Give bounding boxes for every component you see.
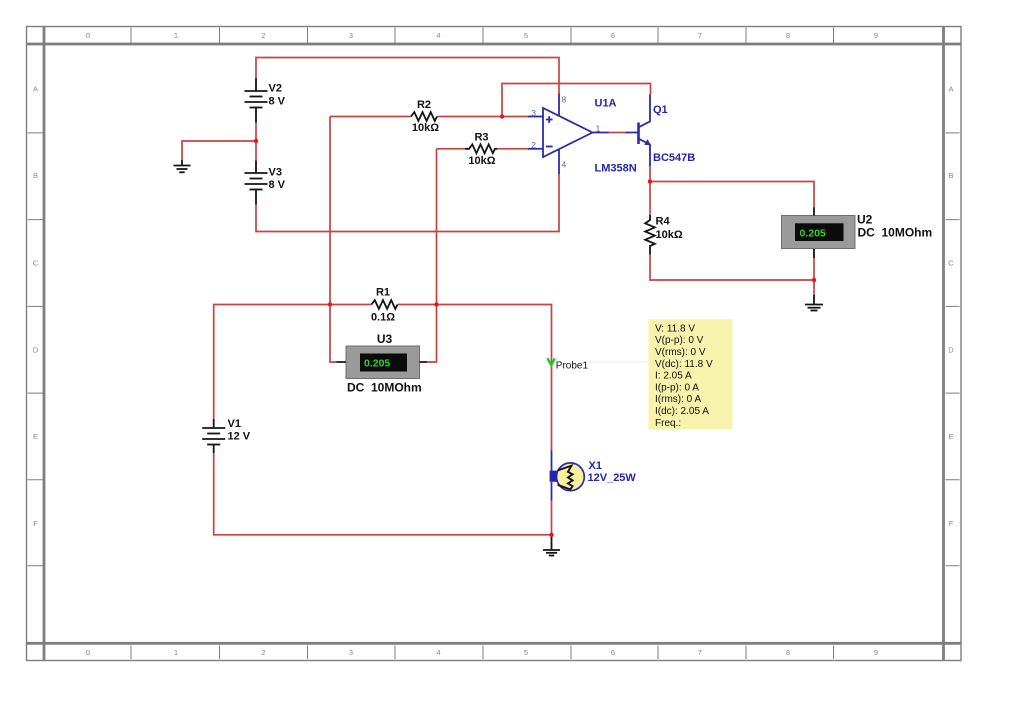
wire pin1 to Q1 base	[609, 132, 626, 134]
wire ground branch left of V2/V3 node	[182, 141, 256, 160]
svg-text:X1: X1	[589, 460, 602, 472]
resistor R2	[411, 112, 437, 121]
probe info box	[649, 319, 733, 429]
svg-text:C: C	[33, 259, 39, 268]
wire V1 bottom to lamp bottom	[214, 453, 552, 535]
op-amp minus input mark	[546, 146, 553, 148]
wire R3 right to op-amp pin2	[497, 148, 529, 150]
ground near V2/V3	[174, 160, 191, 172]
svg-text:V3: V3	[269, 167, 282, 179]
svg-text:E: E	[948, 432, 953, 441]
wire V2 bottom to V3 top	[255, 123, 257, 161]
svg-text:V2: V2	[269, 83, 282, 95]
op-amp plus input mark	[546, 116, 553, 123]
svg-text:10kΩ: 10kΩ	[656, 229, 683, 241]
wire R2 left horizontal	[330, 116, 411, 118]
battery V1	[202, 419, 225, 453]
junction node U2 ground	[812, 278, 816, 282]
svg-text:10kΩ: 10kΩ	[412, 122, 439, 134]
svg-text:4: 4	[562, 160, 567, 170]
svg-text:I: 2.05 A: I: 2.05 A	[655, 371, 692, 382]
lamp X1 filament	[558, 466, 573, 490]
op-amp pin3 stub	[528, 116, 543, 118]
svg-text:4: 4	[436, 31, 440, 40]
svg-text:7: 7	[698, 648, 702, 657]
wire R1 row right to lamp branch	[398, 305, 552, 451]
svg-text:12V_25W: 12V_25W	[588, 472, 637, 484]
lamp X1 bulb	[557, 463, 585, 491]
wire R3 left vertical to R1 right node	[436, 149, 438, 305]
svg-text:6: 6	[611, 648, 615, 657]
battery V3	[245, 161, 268, 205]
svg-text:10kΩ: 10kΩ	[468, 155, 495, 167]
svg-text:U3: U3	[377, 332, 393, 346]
battery V2	[245, 78, 268, 123]
op-amp U1 triangle	[543, 108, 593, 157]
svg-text:5: 5	[524, 31, 528, 40]
svg-text:R3: R3	[474, 132, 488, 144]
svg-text:B: B	[33, 171, 38, 180]
svg-text:Freq.:: Freq.:	[655, 418, 681, 429]
svg-text:1: 1	[596, 124, 601, 134]
svg-text:V: 11.8 V: V: 11.8 V	[655, 323, 695, 334]
wire R3 left horizontal	[437, 148, 466, 150]
wire U2 bottom to node	[813, 258, 815, 280]
wire R2 left vertical to R1 left node	[329, 117, 331, 305]
junction node R1 left	[328, 302, 332, 306]
svg-text:1: 1	[174, 31, 178, 40]
U3 display	[360, 354, 407, 372]
svg-text:8: 8	[786, 31, 790, 40]
svg-text:R2: R2	[417, 99, 431, 111]
svg-text:9: 9	[874, 648, 878, 657]
svg-text:8 V: 8 V	[269, 96, 286, 108]
resistor R3	[465, 144, 497, 153]
svg-text:DC 10MOhm: DC 10MOhm	[347, 381, 422, 395]
svg-text:I(p-p): 0 A: I(p-p): 0 A	[655, 382, 699, 393]
wire U3 right lead	[427, 305, 437, 363]
wire node to R4 top	[649, 182, 651, 216]
junction node lamp ground	[549, 533, 553, 537]
op-amp pin2 stub	[528, 148, 543, 150]
svg-text:0.1Ω: 0.1Ω	[371, 312, 395, 324]
svg-text:8: 8	[786, 648, 790, 657]
svg-text:A: A	[33, 84, 38, 93]
svg-text:V(dc): 11.8 V: V(dc): 11.8 V	[655, 359, 713, 370]
svg-text:A: A	[948, 84, 953, 93]
wire V3 bottom to op-amp pin4	[256, 174, 559, 232]
transistor Q1	[639, 95, 651, 167]
svg-text:1: 1	[174, 648, 178, 657]
ground under lamp	[543, 535, 560, 556]
U2 lead stubs	[813, 208, 815, 259]
svg-text:12 V: 12 V	[228, 431, 251, 443]
svg-text:Probe1: Probe1	[556, 361, 589, 372]
Q1 emitter arrow	[644, 139, 651, 145]
junction node R1 right	[434, 302, 438, 306]
svg-text:6: 6	[611, 31, 615, 40]
op-amp pin4 stub	[558, 149, 560, 174]
wire R1 row left	[214, 305, 372, 420]
svg-text:2: 2	[531, 140, 536, 150]
svg-text:2: 2	[261, 31, 265, 40]
svg-text:LM358N: LM358N	[595, 163, 637, 175]
svg-text:V1: V1	[228, 418, 241, 430]
wire U3 left lead	[330, 305, 337, 363]
wire U2 node to ground	[813, 280, 815, 295]
multimeter U3 box	[346, 346, 420, 379]
ground under U2	[805, 295, 823, 311]
resistor R1	[372, 300, 398, 309]
junction node emitter/R4	[648, 179, 652, 183]
svg-text:R1: R1	[376, 287, 390, 299]
junction node V2/V3/ground	[254, 139, 258, 143]
svg-text:8: 8	[562, 95, 567, 105]
resistor R4	[645, 215, 655, 255]
junction node pin3/collector rail	[500, 114, 504, 118]
svg-text:0.205: 0.205	[364, 358, 390, 370]
svg-text:0: 0	[86, 31, 90, 40]
svg-text:F: F	[949, 519, 954, 528]
wire emitter node to U2 top	[650, 182, 814, 208]
svg-text:I(rms): 0 A: I(rms): 0 A	[655, 394, 701, 405]
svg-text:2: 2	[261, 648, 265, 657]
svg-text:9: 9	[874, 31, 878, 40]
wire lamp bottom to ground node	[551, 501, 553, 535]
multimeter U2 box	[782, 216, 856, 249]
svg-text:Q1: Q1	[653, 104, 668, 116]
wire Q1 emitter to node	[649, 166, 651, 182]
svg-text:BC547B: BC547B	[653, 152, 695, 164]
probe Probe1 arrow	[547, 358, 554, 365]
wire top rail V2 top to op-amp pin8	[256, 58, 559, 94]
wire R4 bottom to U2 bottom node	[650, 255, 814, 281]
svg-text:5: 5	[524, 648, 528, 657]
lamp X1 stubs	[551, 451, 553, 501]
svg-text:V(p-p): 0 V: V(p-p): 0 V	[655, 335, 704, 346]
probe connector line	[588, 361, 648, 363]
svg-text:D: D	[33, 345, 39, 354]
svg-text:D: D	[948, 345, 954, 354]
svg-text:F: F	[33, 519, 38, 528]
svg-text:C: C	[948, 259, 954, 268]
op-amp pin1 stub	[593, 132, 609, 134]
lamp X1 base	[550, 471, 557, 482]
Q1 base stub	[626, 132, 639, 134]
svg-text:7: 7	[698, 31, 702, 40]
U3 lead stubs	[337, 361, 428, 363]
svg-text:U2: U2	[857, 213, 873, 227]
svg-text:4: 4	[436, 648, 440, 657]
svg-text:E: E	[33, 432, 38, 441]
svg-text:B: B	[948, 171, 953, 180]
op-amp pin8 stub	[558, 94, 560, 117]
svg-text:R4: R4	[656, 216, 671, 228]
svg-text:V(rms): 0 V: V(rms): 0 V	[655, 347, 706, 358]
wire node to Q1 collector	[502, 84, 651, 117]
svg-text:3: 3	[349, 31, 353, 40]
svg-text:DC 10MOhm: DC 10MOhm	[858, 225, 933, 239]
wire R2 right to op-amp pin3	[437, 116, 528, 118]
svg-text:3: 3	[531, 108, 536, 118]
U2 display	[795, 223, 844, 241]
svg-text:8 V: 8 V	[269, 179, 286, 191]
svg-text:I(dc): 2.05 A: I(dc): 2.05 A	[655, 406, 709, 417]
svg-text:0: 0	[86, 648, 90, 657]
svg-text:3: 3	[349, 648, 353, 657]
svg-text:0.205: 0.205	[800, 227, 826, 239]
svg-text:U1A: U1A	[595, 98, 617, 110]
